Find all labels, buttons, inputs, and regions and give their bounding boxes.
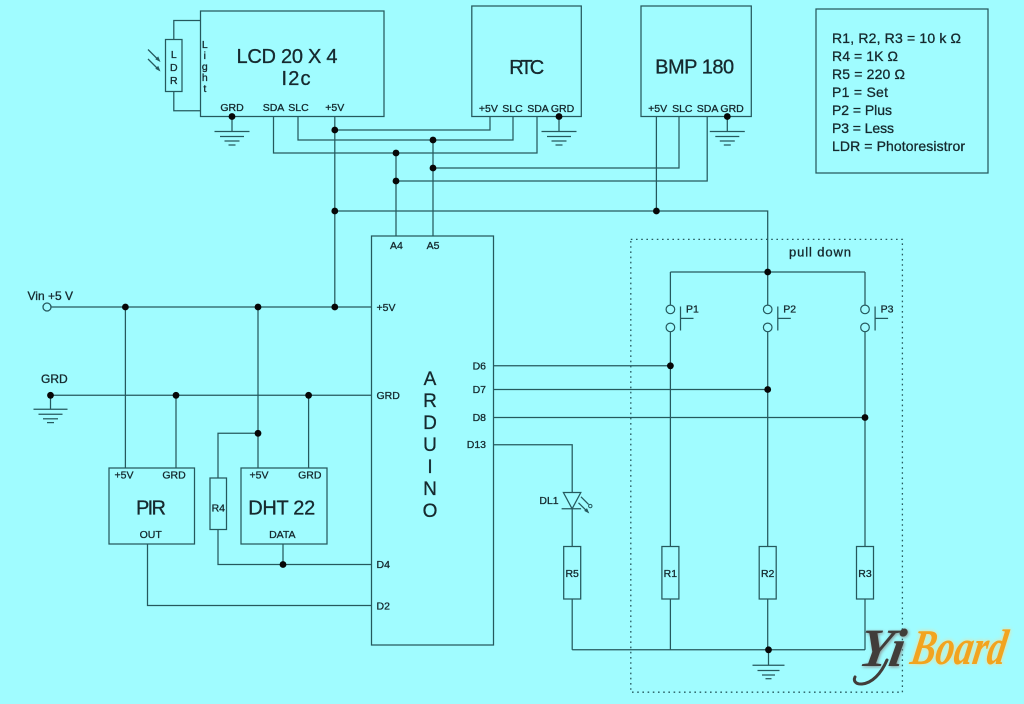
wire LCD SDA to RTC SDA (net SDA) xyxy=(274,117,538,154)
node pull-down feed xyxy=(764,269,771,276)
legend box xyxy=(816,9,988,173)
svg-text:D13: D13 xyxy=(467,439,486,451)
wire LCD SLC to RTC SLC (net SLC) xyxy=(298,117,513,141)
svg-text:SDA: SDA xyxy=(527,103,549,115)
svg-text:R1: R1 xyxy=(664,568,678,580)
DHT 22 box xyxy=(241,468,327,544)
wire D6 xyxy=(494,365,671,367)
resistor R1 body xyxy=(662,547,679,600)
wire R1 to ground bus xyxy=(669,599,671,650)
wire GRD rail xyxy=(51,394,372,396)
wire pull-down top rail xyxy=(670,271,865,273)
wire DHT DATA stub xyxy=(282,544,284,565)
svg-text:DATA: DATA xyxy=(269,529,295,541)
svg-text:SLC: SLC xyxy=(672,103,693,115)
svg-text:R2: R2 xyxy=(761,568,775,580)
wire R3 to ground bus xyxy=(864,599,866,650)
LED arrow xyxy=(579,503,590,514)
svg-text:D6: D6 xyxy=(473,360,487,372)
svg-text:GRD: GRD xyxy=(298,470,322,482)
resistor R4 body xyxy=(210,478,227,530)
ground at bottom bus xyxy=(753,650,785,679)
switch P1 xyxy=(666,272,693,332)
logo Y swash tail xyxy=(854,660,887,684)
svg-text:A4: A4 xyxy=(390,240,403,252)
wire LCD GRD stub xyxy=(231,117,233,132)
svg-text:SLC: SLC xyxy=(288,102,309,114)
svg-text:GRD: GRD xyxy=(720,103,744,115)
node +5V bus/BMP xyxy=(653,208,660,215)
node DATA/D4 xyxy=(280,561,287,568)
wire +5V link to RTC xyxy=(335,117,490,131)
wire LED to R5 xyxy=(571,509,573,547)
svg-text:R4 = 1K Ω: R4 = 1K Ω xyxy=(832,48,898,64)
wire P1 to R1 xyxy=(669,332,671,547)
LDR light arrow 2 xyxy=(148,59,161,72)
svg-text:D2: D2 xyxy=(377,601,391,613)
RTC box xyxy=(472,6,582,117)
svg-text:Board: Board xyxy=(906,619,1012,675)
svg-text:D4: D4 xyxy=(377,559,391,571)
ARDUINO box xyxy=(372,236,494,645)
svg-text:pull down: pull down xyxy=(789,245,851,260)
svg-text:OUT: OUT xyxy=(140,529,163,541)
svg-text:D8: D8 xyxy=(473,412,487,424)
node +5V bus/LCD xyxy=(331,208,338,215)
node SDA/A4 xyxy=(393,150,400,157)
svg-text:P3 = Less: P3 = Less xyxy=(832,120,894,136)
svg-text:P2 = Plus: P2 = Plus xyxy=(832,102,892,118)
wire A5 vertical xyxy=(432,140,434,236)
svg-text:PIR: PIR xyxy=(136,498,166,520)
svg-text:+5V: +5V xyxy=(325,102,344,114)
wire DHT GRD vertical xyxy=(308,395,310,468)
svg-text:GRD: GRD xyxy=(220,102,244,114)
node +5V rail/PIR xyxy=(122,304,129,311)
node GRD rail/DHT xyxy=(305,392,312,399)
svg-text:D7: D7 xyxy=(473,384,487,396)
switch P2 xyxy=(763,272,790,332)
svg-text:RTC: RTC xyxy=(509,57,544,79)
svg-text:R4: R4 xyxy=(212,503,226,515)
svg-text:SLC: SLC xyxy=(502,103,523,115)
svg-text:Vin +5 V: Vin +5 V xyxy=(28,289,73,303)
wire LDR bottom to LCD xyxy=(174,92,201,111)
node D6/P1 xyxy=(667,362,674,369)
wire D8 xyxy=(494,417,866,419)
svg-text:P1: P1 xyxy=(686,304,699,316)
svg-text:LDR = Photoresistror: LDR = Photoresistror xyxy=(832,138,965,154)
wire bottom ground bus xyxy=(572,649,865,651)
wire R2 to ground bus xyxy=(767,599,769,650)
svg-text:R5 = 220 Ω: R5 = 220 Ω xyxy=(832,66,905,82)
node +5V/RTC link xyxy=(331,127,338,134)
wire +5V bus to pull-down xyxy=(335,211,768,272)
node LCD GRD xyxy=(229,113,236,120)
logo Yi xyxy=(855,618,911,678)
svg-text:DL1: DL1 xyxy=(539,495,558,507)
PIR box xyxy=(109,468,195,544)
node SLC2/A5 xyxy=(430,165,437,172)
wire P3 to R3 xyxy=(864,332,866,547)
svg-text:P3: P3 xyxy=(881,304,894,316)
wire LDR top to LCD xyxy=(174,21,201,40)
svg-text:GRD: GRD xyxy=(551,103,575,115)
node BMP GRD xyxy=(724,113,731,120)
svg-text:SDA: SDA xyxy=(697,103,719,115)
svg-text:+5V: +5V xyxy=(648,103,667,115)
wire DHT +5V vertical xyxy=(257,307,259,468)
resistor R5 body xyxy=(564,547,581,600)
LDR light arrow 1 xyxy=(148,50,161,63)
wire A4 vertical xyxy=(395,153,397,236)
node D8/P3 xyxy=(862,414,869,421)
wire RTC GRD stub xyxy=(558,117,560,132)
ground under RTC xyxy=(542,132,577,146)
wire PIR GRD vertical xyxy=(175,395,177,468)
resistor R3 body xyxy=(857,547,874,600)
ground under LCD xyxy=(215,132,250,146)
svg-text:+5V: +5V xyxy=(115,470,134,482)
node GRD rail ground xyxy=(47,392,54,399)
wire BMP SLC to A5 column xyxy=(433,117,679,169)
svg-text:LCD 20 X 4: LCD 20 X 4 xyxy=(237,46,338,68)
wire R5 to ground bus xyxy=(571,599,573,650)
wire +5V rail xyxy=(51,306,372,308)
node +5V rail/DHT xyxy=(255,304,262,311)
svg-text:R1, R2, R3 = 10 k Ω: R1, R2, R3 = 10 k Ω xyxy=(832,30,961,46)
wire P2 to R2 xyxy=(767,332,769,547)
node ground bus xyxy=(765,646,772,653)
ground at GRD rail xyxy=(34,395,68,422)
svg-text:+5V: +5V xyxy=(479,103,498,115)
LCD 20 X 4 box xyxy=(201,11,385,117)
node GRD rail/PIR xyxy=(173,392,180,399)
wire BMP GRD stub xyxy=(726,117,728,132)
node D7/P2 xyxy=(764,386,771,393)
svg-text:+5V: +5V xyxy=(377,302,396,314)
svg-text:I2c: I2c xyxy=(282,68,311,90)
node +5V rail/LCD column xyxy=(331,304,338,311)
svg-text:A5: A5 xyxy=(427,240,440,252)
LED arrow with ring xyxy=(581,497,592,508)
ground under BMP xyxy=(710,132,745,146)
svg-text:SDA: SDA xyxy=(263,102,285,114)
svg-text:GRD: GRD xyxy=(162,470,186,482)
svg-text:BMP 180: BMP 180 xyxy=(655,57,734,79)
LED DL1 xyxy=(562,493,582,509)
node SLC/A5 xyxy=(430,137,437,144)
wire D13 to LED xyxy=(494,445,573,493)
wire BMP SDA to A4 column xyxy=(396,117,707,182)
wire R4 bottom to D4 xyxy=(218,530,372,565)
BMP 180 box xyxy=(641,6,751,117)
wire D7 xyxy=(494,389,768,391)
svg-text:R5: R5 xyxy=(565,568,579,580)
svg-text:R3: R3 xyxy=(858,568,872,580)
svg-text:+5V: +5V xyxy=(250,470,269,482)
svg-text:ARDUINO: ARDUINO xyxy=(423,369,438,522)
wire PIR +5V vertical xyxy=(124,307,126,468)
wire LCD +5V vertical xyxy=(334,117,336,308)
wire R4 top to DHT +5V column xyxy=(218,433,258,478)
svg-text:P2: P2 xyxy=(783,304,796,316)
pull down dashed box xyxy=(631,239,903,692)
terminal Vin +5 V xyxy=(43,303,51,311)
switch P3 xyxy=(861,272,888,332)
node R4/DHT +5V xyxy=(255,430,262,437)
svg-text:GRD: GRD xyxy=(41,372,68,386)
svg-text:GRD: GRD xyxy=(377,390,401,402)
node RTC GRD xyxy=(556,113,563,120)
logo Board xyxy=(906,619,1012,675)
resistor R2 body xyxy=(759,547,776,600)
resistor LDR body xyxy=(166,40,183,92)
wire PIR OUT to D2 xyxy=(148,544,372,606)
node SDA2/A4 xyxy=(393,178,400,185)
wire BMP +5V vertical xyxy=(655,117,657,212)
svg-text:DHT 22: DHT 22 xyxy=(248,498,315,520)
svg-text:P1 = Set: P1 = Set xyxy=(832,84,888,100)
